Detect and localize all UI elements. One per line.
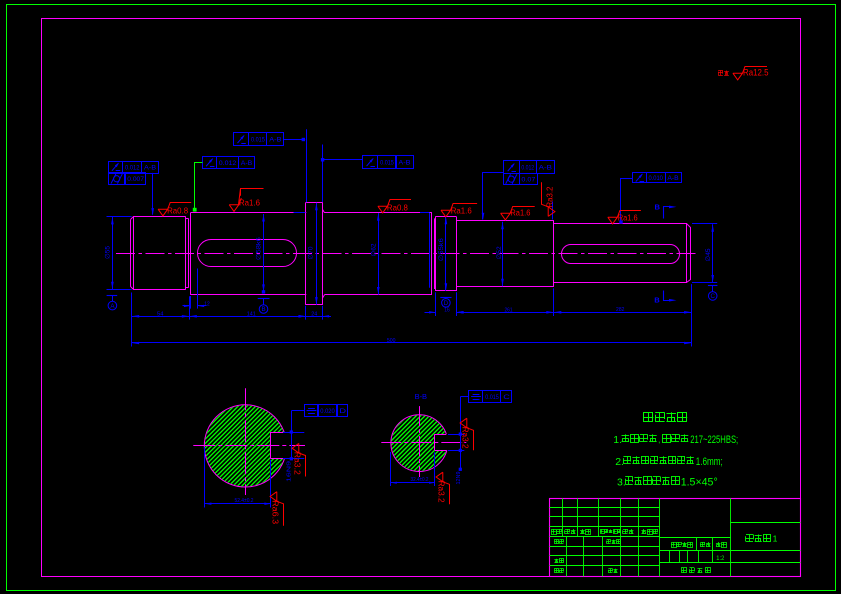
svg-text:1.6mm;: 1.6mm; bbox=[696, 456, 723, 468]
svg-text:1.5×45°: 1.5×45° bbox=[681, 476, 718, 488]
svg-text:B: B bbox=[654, 203, 660, 212]
svg-text:24: 24 bbox=[311, 311, 318, 317]
svg-text:D: D bbox=[444, 300, 449, 307]
svg-text:A-B: A-B bbox=[398, 160, 410, 167]
svg-text:C: C bbox=[710, 293, 715, 300]
svg-text:261: 261 bbox=[505, 307, 513, 313]
svg-text:∅70: ∅70 bbox=[307, 246, 314, 259]
svg-text:Ra3.2: Ra3.2 bbox=[545, 186, 555, 207]
svg-text:1.: 1. bbox=[613, 434, 622, 446]
svg-text:1: 1 bbox=[773, 533, 778, 543]
svg-text:217~225HBS;: 217~225HBS; bbox=[690, 434, 738, 446]
svg-text:∅55: ∅55 bbox=[105, 246, 112, 259]
svg-text:A-B: A-B bbox=[269, 137, 281, 144]
svg-text:B: B bbox=[654, 296, 660, 305]
svg-text:∅62: ∅62 bbox=[371, 243, 378, 256]
svg-text:0.015: 0.015 bbox=[251, 137, 265, 144]
svg-text:1:2: 1:2 bbox=[716, 555, 724, 562]
svg-text:C: C bbox=[503, 394, 510, 401]
svg-text:Ra1.6: Ra1.6 bbox=[239, 198, 260, 208]
svg-text:Ra1.6: Ra1.6 bbox=[510, 208, 530, 218]
svg-text:Ra3.2: Ra3.2 bbox=[292, 452, 301, 476]
svg-text:12: 12 bbox=[204, 301, 210, 307]
svg-text:16: 16 bbox=[444, 308, 450, 314]
svg-text:141: 141 bbox=[247, 311, 256, 317]
svg-text:B-B: B-B bbox=[415, 392, 428, 401]
svg-text:D: D bbox=[339, 408, 346, 415]
svg-text:Ra0.8: Ra0.8 bbox=[167, 206, 188, 216]
svg-text:0.012: 0.012 bbox=[521, 165, 534, 172]
svg-text:Ra1.6: Ra1.6 bbox=[618, 213, 638, 223]
svg-text:0.020: 0.020 bbox=[320, 408, 335, 415]
svg-text:3.: 3. bbox=[617, 476, 626, 488]
svg-text:500: 500 bbox=[387, 338, 396, 344]
svg-text:∅58k6: ∅58k6 bbox=[255, 237, 262, 260]
svg-text:A-B: A-B bbox=[539, 165, 552, 172]
svg-text:0.015: 0.015 bbox=[380, 160, 394, 167]
svg-text:0.012: 0.012 bbox=[125, 164, 140, 171]
svg-text:12N9: 12N9 bbox=[456, 472, 462, 485]
svg-text:Ra6.3: Ra6.3 bbox=[271, 500, 280, 525]
svg-text:0.007: 0.007 bbox=[127, 176, 144, 183]
svg-text:54: 54 bbox=[157, 311, 164, 317]
svg-text:2.: 2. bbox=[615, 456, 624, 468]
svg-text:∅45: ∅45 bbox=[705, 248, 712, 261]
svg-text:,: , bbox=[658, 436, 660, 445]
svg-text:B: B bbox=[261, 306, 265, 313]
svg-text:A-B: A-B bbox=[241, 160, 253, 167]
svg-text:282: 282 bbox=[616, 307, 624, 313]
svg-text:A-B: A-B bbox=[667, 175, 678, 182]
svg-text:Ra0.8: Ra0.8 bbox=[387, 203, 408, 213]
svg-text:0.015: 0.015 bbox=[485, 394, 499, 401]
svg-text:A-B: A-B bbox=[144, 164, 156, 171]
svg-text:Ra3.2: Ra3.2 bbox=[460, 427, 469, 449]
svg-text:16N9: 16N9 bbox=[287, 461, 293, 482]
svg-text:52.4±0.2: 52.4±0.2 bbox=[235, 498, 254, 504]
svg-text:Ra3.2: Ra3.2 bbox=[436, 481, 445, 503]
svg-text:∅55k6: ∅55k6 bbox=[438, 238, 445, 261]
svg-text:∅52: ∅52 bbox=[496, 246, 503, 259]
svg-text:32.4±0.2: 32.4±0.2 bbox=[411, 477, 429, 483]
svg-text:Ra12.5: Ra12.5 bbox=[743, 67, 769, 77]
svg-text:0.012: 0.012 bbox=[219, 160, 237, 167]
svg-text:0.010: 0.010 bbox=[648, 175, 663, 182]
svg-text:0.07: 0.07 bbox=[521, 176, 535, 183]
svg-text:Ra1.6: Ra1.6 bbox=[451, 205, 472, 215]
